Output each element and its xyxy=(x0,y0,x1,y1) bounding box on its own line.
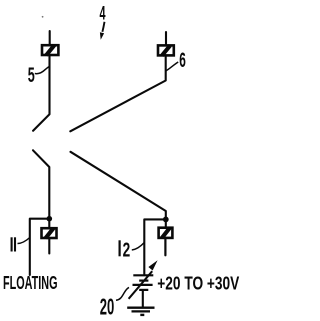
node A junction dot xyxy=(47,216,53,222)
speck xyxy=(42,16,44,18)
wire node B to terminal 12 xyxy=(165,219,167,227)
svg-text:20: 20 xyxy=(100,294,115,320)
wire from terminal 6 to upper-right contact xyxy=(70,55,165,131)
battery 20 plate short 2 xyxy=(139,289,148,291)
svg-text:FLOATING: FLOATING xyxy=(3,272,58,293)
terminal 5 box xyxy=(42,45,58,55)
terminal 11 box xyxy=(42,228,57,238)
node B junction dot xyxy=(163,217,169,223)
svg-text:4: 4 xyxy=(100,2,106,24)
open wire below terminal 11 xyxy=(48,238,50,254)
open wire below terminal 12 xyxy=(164,238,166,255)
variable-adjust arrow through battery 20 xyxy=(129,260,158,299)
battery 20 plate short 1 xyxy=(139,280,148,282)
wire from terminal 5 to upper-left contact xyxy=(33,55,49,131)
leader line 5 xyxy=(35,66,50,73)
battery 20 plate long 1 xyxy=(133,274,153,276)
lead-line arrow for 4 xyxy=(100,22,105,40)
leader line 6 xyxy=(166,62,178,71)
floating wire branch xyxy=(30,219,50,275)
ground xyxy=(127,308,154,315)
svg-text:+20 TO +30V: +20 TO +30V xyxy=(157,273,239,294)
label 11 xyxy=(12,237,15,251)
wire from lower-right contact to node B xyxy=(71,152,166,220)
wire battery to ground xyxy=(142,290,144,308)
terminal 12 box xyxy=(159,228,173,238)
battery 20 plate long 2 xyxy=(133,284,153,286)
wire node B to battery branch xyxy=(144,219,166,275)
wire from lower-left contact to node A xyxy=(33,150,49,218)
svg-text:5: 5 xyxy=(28,63,35,87)
label 12 xyxy=(120,239,131,262)
svg-text:2: 2 xyxy=(123,239,131,262)
leader line 12 xyxy=(132,243,145,251)
svg-text:6: 6 xyxy=(179,48,186,72)
leader line 11 xyxy=(18,238,30,244)
wire stub above terminal 5 xyxy=(49,31,51,46)
terminal 6 box xyxy=(158,45,174,55)
wire node A to terminal 11 xyxy=(48,219,50,228)
leader line 20 xyxy=(116,287,129,300)
wire stub above terminal 6 xyxy=(165,32,167,46)
